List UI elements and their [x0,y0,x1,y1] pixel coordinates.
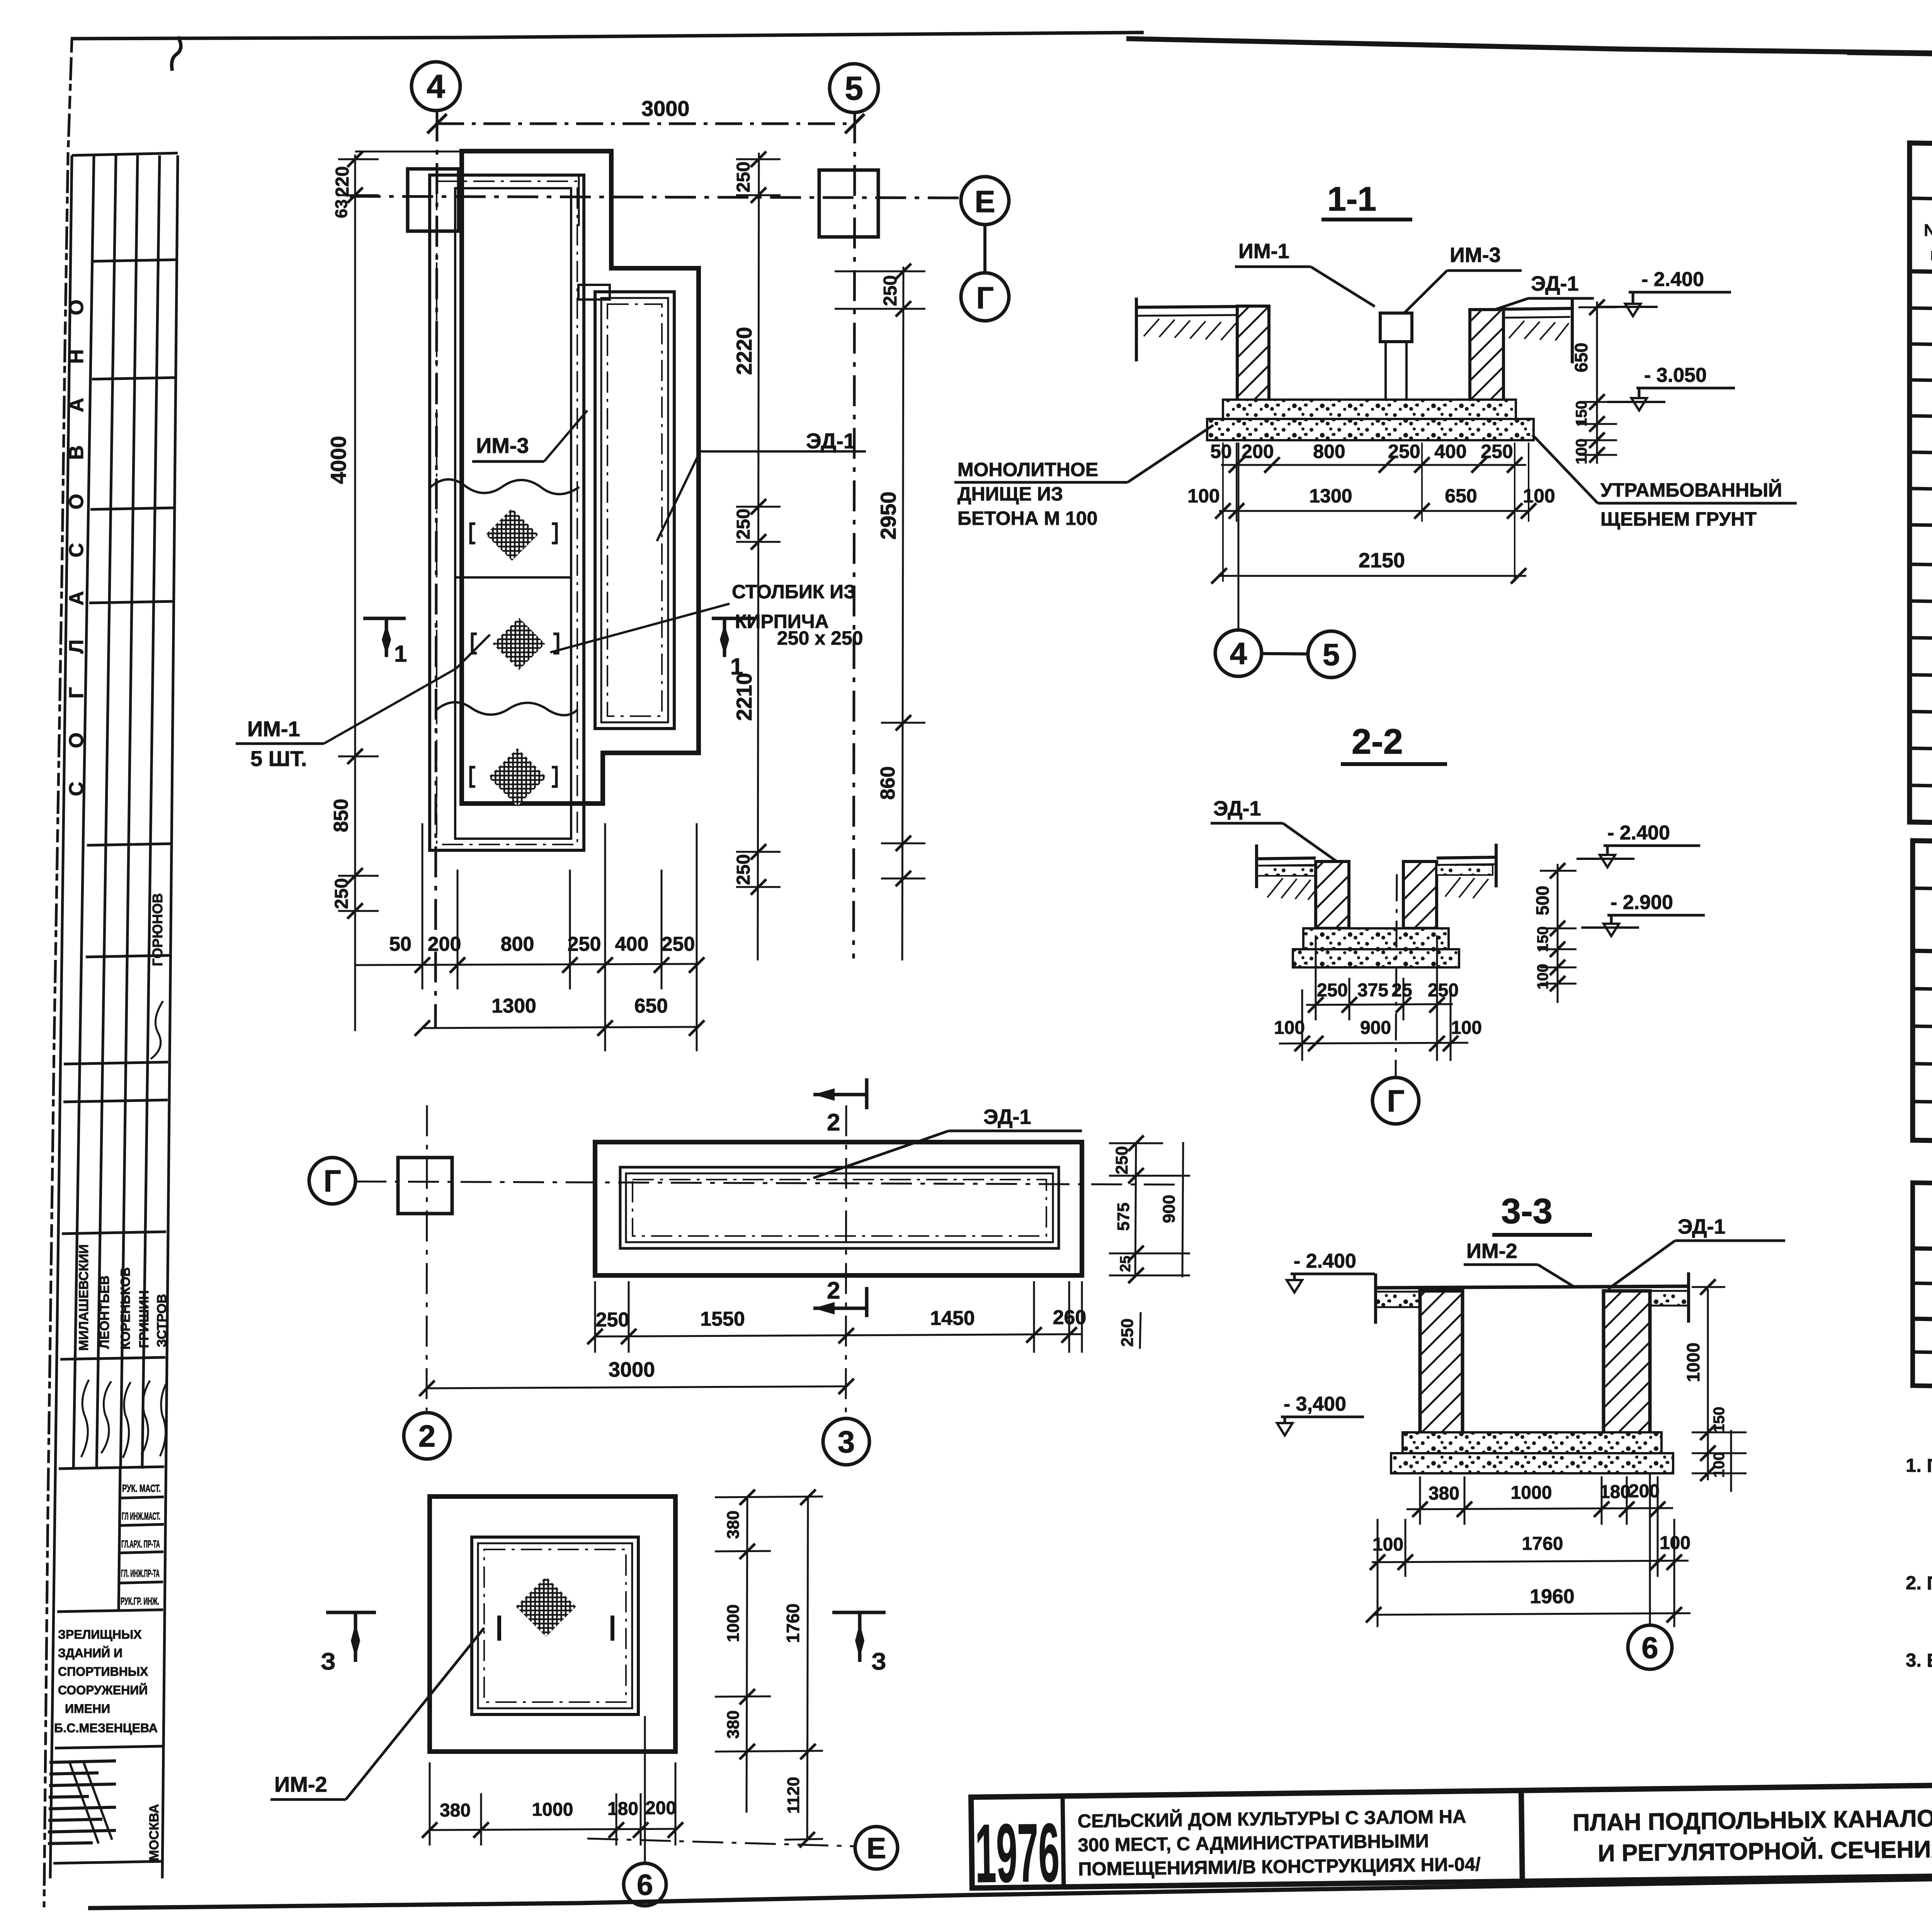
stamp inner vertical 3b [142,155,160,1469]
svg-text:250: 250 [662,933,695,955]
svg-text:ЭД-1: ЭД-1 [1213,797,1261,820]
axis circle E [961,177,1009,225]
hatched diamond plan3 [516,1577,576,1637]
svg-text:ЛЕОНТЬЕВ: ЛЕОНТЬЕВ [97,1275,112,1349]
axis G line sec22 [1396,874,1397,1078]
svg-text:250: 250 [1118,1318,1137,1347]
svg-text:ГЛ. ИНЖ.ПР-ТА: ГЛ. ИНЖ.ПР-ТА [121,1568,160,1579]
svg-text:З: З [871,1648,886,1675]
svg-text:БЕТОНА М 100: БЕТОНА М 100 [957,507,1098,529]
axis circle G plan2 [309,1158,355,1204]
svg-text:1000: 1000 [1683,1343,1703,1382]
bottom dim chain1 sec11 [1210,441,1526,473]
spec table header texts [1924,221,1932,275]
stamp column outer verticals [50,155,72,1878]
plan outer contour [462,151,699,804]
svg-text:ГОРЮНОВ: ГОРЮНОВ [150,893,165,966]
svg-text:220: 220 [332,166,353,197]
compartment line 1 [455,576,571,579]
svg-text:- 2.400: - 2.400 [1294,1250,1356,1272]
hatched brick column 2 [493,618,545,670]
right dim chain sec11 [1571,300,1617,464]
svg-text:400: 400 [615,933,649,955]
right wall hatched sec33 [1604,1291,1650,1434]
long pit inner rect 2 [626,1173,1053,1242]
right pit outer rect [595,292,674,729]
stamp rotated signatures squiggles [81,1380,89,1457]
spec table outer box [1910,143,1932,834]
column square axis5 [819,170,878,237]
svg-text:УТРАМБОВАННЫЙ: УТРАМБОВАННЫЙ [1600,479,1782,501]
axis circle 6 plan3 [624,1863,666,1906]
vyborka table outer box [1913,841,1932,1152]
bottom dim chain 2 [415,995,704,1036]
spec table title row line [1910,198,1932,210]
svg-text:ЭД-1: ЭД-1 [983,1105,1031,1129]
axis E horizontal dash-dot line [350,196,961,198]
svg-text:250: 250 [1428,980,1459,1001]
svg-text:РУК.ГР. ИНЖ.: РУК.ГР. ИНЖ. [121,1595,159,1607]
label monolithic bottom [957,459,1098,529]
svg-text:- 2.400: - 2.400 [1641,268,1704,291]
bedding upper sec22 [1303,928,1449,949]
bracket bars plan3 [497,1616,501,1641]
label IM-1 5 sht [247,717,307,771]
dim chain2 sec22 [1274,989,1482,1061]
svg-text:100: 100 [1534,964,1551,990]
svg-text:3000: 3000 [609,1358,655,1381]
spec table header bottom line [1910,271,1932,283]
svg-text:1976: 1976 [975,1806,1060,1900]
axis circle 6 sec33 [1628,1625,1672,1669]
svg-text:ЗСТРОВ: ЗСТРОВ [155,1294,169,1347]
title block outer box [971,1776,1932,1888]
section mark 3 left [326,1612,376,1662]
stamp row line y4521 [55,1746,163,1748]
svg-text:250 x 250: 250 x 250 [777,627,863,649]
svg-text:ИМЕНИ: ИМЕНИ [65,1702,110,1716]
right ground double line [1503,308,1572,309]
svg-text:1450: 1450 [930,1307,975,1330]
axis 2 line [427,1105,427,1411]
dim chain2 sec33 [1370,1519,1690,1627]
svg-text:Г: Г [1387,1084,1404,1118]
svg-text:150: 150 [1711,1407,1728,1433]
svg-text:- 2.400: - 2.400 [1607,822,1670,844]
svg-text:400: 400 [1434,441,1466,462]
bedding lower sec22 [1293,949,1459,967]
svg-text:380: 380 [724,1710,743,1738]
svg-text:1000: 1000 [724,1604,743,1642]
stamp top horizontal [72,153,178,155]
svg-text:п/п: п/п [1930,245,1932,264]
spec table row lines [1910,308,1932,797]
section mark 1 right [712,618,754,657]
stamp row line y1560 [89,601,173,603]
column square axis4 [408,169,459,231]
stamp row line y2750 [64,1062,168,1064]
axis circle 4 sec11 [1215,630,1262,676]
axis E dash-dot plan3 [587,1839,855,1846]
svg-text:250: 250 [1388,441,1420,462]
axis circle 4 [412,62,460,111]
svg-text:СОГЛАСОВАНО: СОГЛАСОВАНО [65,266,88,796]
svg-text:250: 250 [1481,441,1513,462]
svg-text:380: 380 [1429,1483,1459,1504]
svg-text:1-1: 1-1 [1327,180,1376,218]
svg-text:650: 650 [1571,343,1591,373]
axis circle E plan3 [855,1827,898,1869]
axis circle 2 [404,1413,450,1459]
corner hook mark top [172,37,181,71]
right floor slab sec22 [1437,857,1496,858]
axis circle G sec22 [1372,1078,1419,1124]
svg-text:900: 900 [1160,1195,1179,1223]
left ground hatch [1144,319,1236,340]
section mark 2 bottom [813,1287,867,1317]
svg-text:850: 850 [330,799,352,833]
axis 5 vertical dash-dot line [854,112,855,958]
connector E to G [983,225,986,273]
svg-text:МОСКВА: МОСКВА [147,1804,162,1861]
stamp logo hatched emblem [48,1761,116,1844]
left wall hatched sec33 [1420,1291,1463,1434]
svg-text:Б.С.МЕЗЕНЦЕВА: Б.С.МЕЗЕНЦЕВА [54,1721,158,1735]
svg-text:100: 100 [1573,439,1590,465]
svg-text:380: 380 [440,1800,471,1821]
svg-text:250: 250 [733,509,754,540]
svg-text:№№: №№ [1924,221,1932,240]
stamp inner vertical 2 [97,155,116,1469]
svg-text:ДНИЩЕ ИЗ: ДНИЩЕ ИЗ [957,483,1063,505]
sheet bottom border [88,1867,1932,1908]
title block object name [1077,1806,1481,1880]
section mark 3 right [832,1612,886,1662]
svg-text:100: 100 [1451,1018,1482,1038]
svg-text:380: 380 [724,1510,743,1539]
stamp label row line y4096 [119,1582,163,1583]
right pit inner rect [601,298,668,722]
dim 3000 between axes [437,123,855,125]
stamp org text ЗРЕЛИЩНЫХ ЗДАНИЙ [54,1628,158,1735]
svg-text:МОНОЛИТНОЕ: МОНОЛИТНОЕ [957,459,1098,480]
svg-text:2-2: 2-2 [1352,722,1403,761]
svg-text:250: 250 [568,933,601,955]
svg-text:3: 3 [838,1425,855,1459]
svg-text:ГРИШИН: ГРИШИН [137,1290,151,1348]
stamp row line y3798 [59,1467,164,1469]
svg-text:250: 250 [733,162,754,192]
hatched brick column 1 [486,508,538,561]
svg-text:ЭД-1: ЭД-1 [806,429,855,453]
svg-text:2950: 2950 [876,492,900,540]
svg-text:- 2.900: - 2.900 [1611,891,1673,914]
svg-text:250: 250 [733,854,754,885]
svg-text:ИМ-1: ИМ-1 [1238,240,1289,263]
sheet top border right segment [1126,39,1932,70]
pit square outer [430,1496,675,1752]
svg-text:300 МЕСТ, С АДМИНИСТРАТИВНЫМИ: 300 МЕСТ, С АДМИНИСТРАТИВНЫМИ [1078,1831,1429,1856]
notes text lines [1906,1455,1932,1721]
svg-text:250: 250 [880,275,901,306]
stamp inner vertical 3 [121,155,138,1469]
label stolbik iz kirpicha [732,581,863,649]
svg-text:100: 100 [1372,1534,1403,1555]
svg-text:375: 375 [1357,980,1388,1001]
svg-text:СТОЛБИК ИЗ: СТОЛБИК ИЗ [732,581,855,603]
right dim chain1 plan3 [715,1490,823,1813]
stamp row line y3189 [62,1232,166,1234]
section 1-1 right wall hatched [1470,310,1503,402]
stamp inner vertical 4 (labels column left) [119,1469,120,1612]
section 1-1 left wall hatched [1237,306,1269,402]
stamp row line y4819 [53,1861,162,1863]
svg-text:ГЛ ИНЖ.МАСТ.: ГЛ ИНЖ.МАСТ. [122,1510,160,1522]
steel row lines [1913,1283,1932,1295]
right ground hatch [1509,321,1569,340]
svg-text:150: 150 [1534,926,1551,952]
axis circle G [961,273,1009,321]
axis 6 line plan3 [644,1716,646,1863]
svg-text:2: 2 [827,1109,840,1136]
pit square dash rect [484,1549,626,1702]
bottom dim chain plan3 [422,1762,683,1845]
stamp row line y676 [93,260,176,261]
svg-text:2: 2 [418,1419,436,1453]
svg-text:25: 25 [1117,1256,1134,1272]
title block sheet name [1573,1801,1932,1867]
svg-text:500: 500 [1532,886,1553,916]
svg-text:650: 650 [1445,485,1477,507]
axis 6 line sec33 [1649,1474,1651,1624]
axis 3 line [846,1105,846,1418]
svg-text:СПОРТИВНЫХ: СПОРТИВНЫХ [58,1665,148,1679]
svg-text:63: 63 [332,199,351,218]
svg-text:1000: 1000 [532,1800,573,1820]
pit square inner 1 [472,1537,638,1714]
svg-text:800: 800 [1313,441,1345,462]
svg-text:Е: Е [975,184,995,219]
left thin slab sec33 [1376,1292,1420,1307]
svg-text:1120: 1120 [784,1777,803,1813]
dim chain1 sec22 [1306,935,1459,1061]
tall pit inner rect [455,188,571,839]
svg-text:ИМ-3: ИМ-3 [476,433,529,458]
cover edge vertical [578,176,580,226]
svg-text:1300: 1300 [492,995,536,1017]
svg-text:800: 800 [501,933,534,955]
svg-text:250: 250 [596,1309,629,1331]
svg-text:200: 200 [1242,441,1274,462]
svg-text:100: 100 [1523,485,1555,507]
svg-text:2150: 2150 [1359,549,1405,572]
long pit inner rect 1 [620,1167,1059,1248]
stamp row line y1318 [90,508,173,509]
wavy break line bottom [437,702,578,715]
svg-text:ЗРЕЛИЩНЫХ: ЗРЕЛИЩНЫХ [58,1628,142,1641]
axis 4 vertical dash-dot line [435,111,437,1028]
far right dim chain x2338 [835,264,925,960]
sheet top border overlap stroke [1847,54,1932,68]
svg-text:4000: 4000 [326,436,350,484]
svg-text:ГЛ.АРХ. ПР-ТА: ГЛ.АРХ. ПР-ТА [121,1538,160,1550]
svg-text:Г: Г [976,281,993,315]
extension verticals sec11 [1223,443,1529,582]
dim chain1 sec33 [1406,1476,1673,1577]
stamp row line y2849 [63,1100,168,1102]
svg-text:1760: 1760 [783,1604,803,1643]
axis circle 3 [823,1418,869,1465]
long pit dash rect [633,1180,1046,1236]
svg-text:650: 650 [634,995,668,1017]
svg-text:2210: 2210 [732,673,756,721]
stamp inner vertical 1 [73,155,94,1469]
svg-text:5: 5 [845,70,863,107]
plan top extension line [355,151,462,153]
bedding lower sec33 [1391,1453,1673,1473]
svg-text:ЩЕБНЕМ ГРУНТ: ЩЕБНЕМ ГРУНТ [1600,508,1757,530]
left ground double line [1136,306,1242,307]
svg-text:1760: 1760 [1522,1534,1563,1554]
svg-text:ИМ-2: ИМ-2 [1466,1239,1517,1263]
hatched brick column 3 [488,748,546,806]
bracket marks around columns [471,524,558,787]
right dim chain sec22 [1532,863,1577,1003]
right dim chain sec33 [1683,1279,1747,1492]
svg-text:100: 100 [1660,1533,1690,1553]
bottom dim chain 1 [355,823,704,1051]
svg-text:1: 1 [394,641,407,667]
svg-text:Г: Г [323,1164,341,1198]
svg-text:ИМ-1: ИМ-1 [247,717,300,741]
svg-text:100: 100 [1187,485,1219,507]
left floor slab sec22 [1257,858,1316,859]
pit square inner 2 [478,1543,632,1708]
sheet top border left segment [71,32,1144,39]
svg-text:150: 150 [1573,401,1590,427]
svg-text:5 ШТ.: 5 ШТ. [250,746,307,771]
column square plan2 [398,1158,452,1214]
svg-text:200: 200 [428,933,461,955]
title block cell dividers [1063,1796,1064,1887]
bedding upper sec33 [1403,1432,1662,1453]
wavy break line top [430,479,579,494]
stamp row line y2187 [87,844,170,845]
stamp row line y2476 [86,955,169,957]
vyborka row lines [1913,989,1932,1000]
stamp row line y3515 [60,1357,165,1359]
svg-text:З: З [321,1648,336,1675]
tall pit dash-dot inner rect [437,181,577,844]
svg-text:4: 4 [427,68,445,105]
svg-text:ИМ-2: ИМ-2 [274,1772,327,1796]
svg-text:250: 250 [1317,980,1348,1001]
right wall hatched sec22 [1403,861,1437,928]
stamp label row line y4018 [119,1552,163,1553]
bottom dim chain3 sec11 [1211,549,1526,584]
svg-text:200: 200 [1629,1481,1660,1502]
right dim chain plan2 [1109,1136,1190,1349]
svg-text:ЭД-1: ЭД-1 [1531,272,1579,295]
left dim chain x919 [326,152,379,1031]
tall pit outer rect [430,175,584,850]
svg-text:50: 50 [389,933,412,955]
svg-text:4: 4 [1230,636,1247,671]
left wall hatched sec22 [1316,861,1349,928]
svg-text:200: 200 [645,1798,676,1818]
svg-text:100: 100 [1711,1452,1728,1478]
top cover line sec33 [1376,1286,1689,1288]
svg-text:- 3,400: - 3,400 [1284,1393,1346,1415]
section mark 1 left [363,618,406,657]
svg-text:180: 180 [607,1799,638,1819]
stamp row line y981 [92,378,175,379]
svg-text:250: 250 [1112,1146,1131,1174]
long pit outer rect [595,1142,1082,1275]
svg-text:1960: 1960 [1530,1585,1575,1608]
svg-text:900: 900 [1360,1018,1391,1038]
bedding slab upper [1223,400,1516,422]
stamp label row line y3947 [119,1524,164,1525]
svg-text:860: 860 [877,766,899,800]
vyborka title row line [1913,888,1932,900]
steel table outer box [1913,1183,1932,1397]
axis line down to circle 4 [1238,443,1240,629]
right dim chain2 plan3 [783,1490,823,1847]
dim 3000 plan2 [419,1358,854,1396]
svg-text:100: 100 [1274,1018,1305,1038]
dim chain3 sec33 [1366,1585,1690,1622]
svg-text:3000: 3000 [641,96,690,121]
axis circle 5 [830,64,878,112]
axis G dash-dot plan2 [355,1182,1179,1185]
svg-text:МИЛАШЕВСКИЙ: МИЛАШЕВСКИЙ [76,1245,91,1351]
svg-text:1550: 1550 [700,1308,745,1330]
bedding slab lower [1207,419,1534,440]
svg-text:1000: 1000 [1511,1483,1552,1503]
bottom dim chain2 sec11 [1187,485,1555,519]
sheet left border (paper edge, sketchy) [44,39,72,1907]
svg-text:Е: Е [867,1832,886,1865]
svg-text:6: 6 [1641,1631,1658,1665]
svg-text:СООРУЖЕНИЙ: СООРУЖЕНИЙ [58,1683,148,1697]
svg-text:2: 2 [827,1277,840,1304]
svg-text:2220: 2220 [732,327,756,375]
axis circle 5 sec11 [1308,631,1354,678]
stamp row line y4167 [57,1610,163,1612]
svg-text:260: 260 [1053,1306,1087,1329]
connector 4-5 [1262,654,1308,654]
label compacted ground [1600,479,1782,530]
svg-text:250: 250 [332,878,352,909]
svg-text:50: 50 [1210,441,1232,462]
right pit cap block [578,285,610,300]
section mark 2 top [813,1078,867,1109]
right thin slab sec33 [1650,1291,1689,1306]
dim chain plan2 [587,1281,1086,1353]
stamp rotated handwriting [151,1001,163,1059]
svg-text:5: 5 [1323,637,1340,672]
right dim chain x1964 [732,152,781,960]
svg-text:1300: 1300 [1309,485,1352,507]
steel header bottom line [1913,1248,1932,1260]
svg-text:КОРЕНЬКОВ: КОРЕНЬКОВ [118,1267,133,1350]
svg-text:575: 575 [1114,1202,1133,1231]
svg-text:3-3: 3-3 [1501,1192,1553,1231]
svg-text:6: 6 [637,1869,653,1902]
vyborka header lines [1913,951,1932,962]
svg-text:ЭД-1: ЭД-1 [1678,1215,1726,1238]
